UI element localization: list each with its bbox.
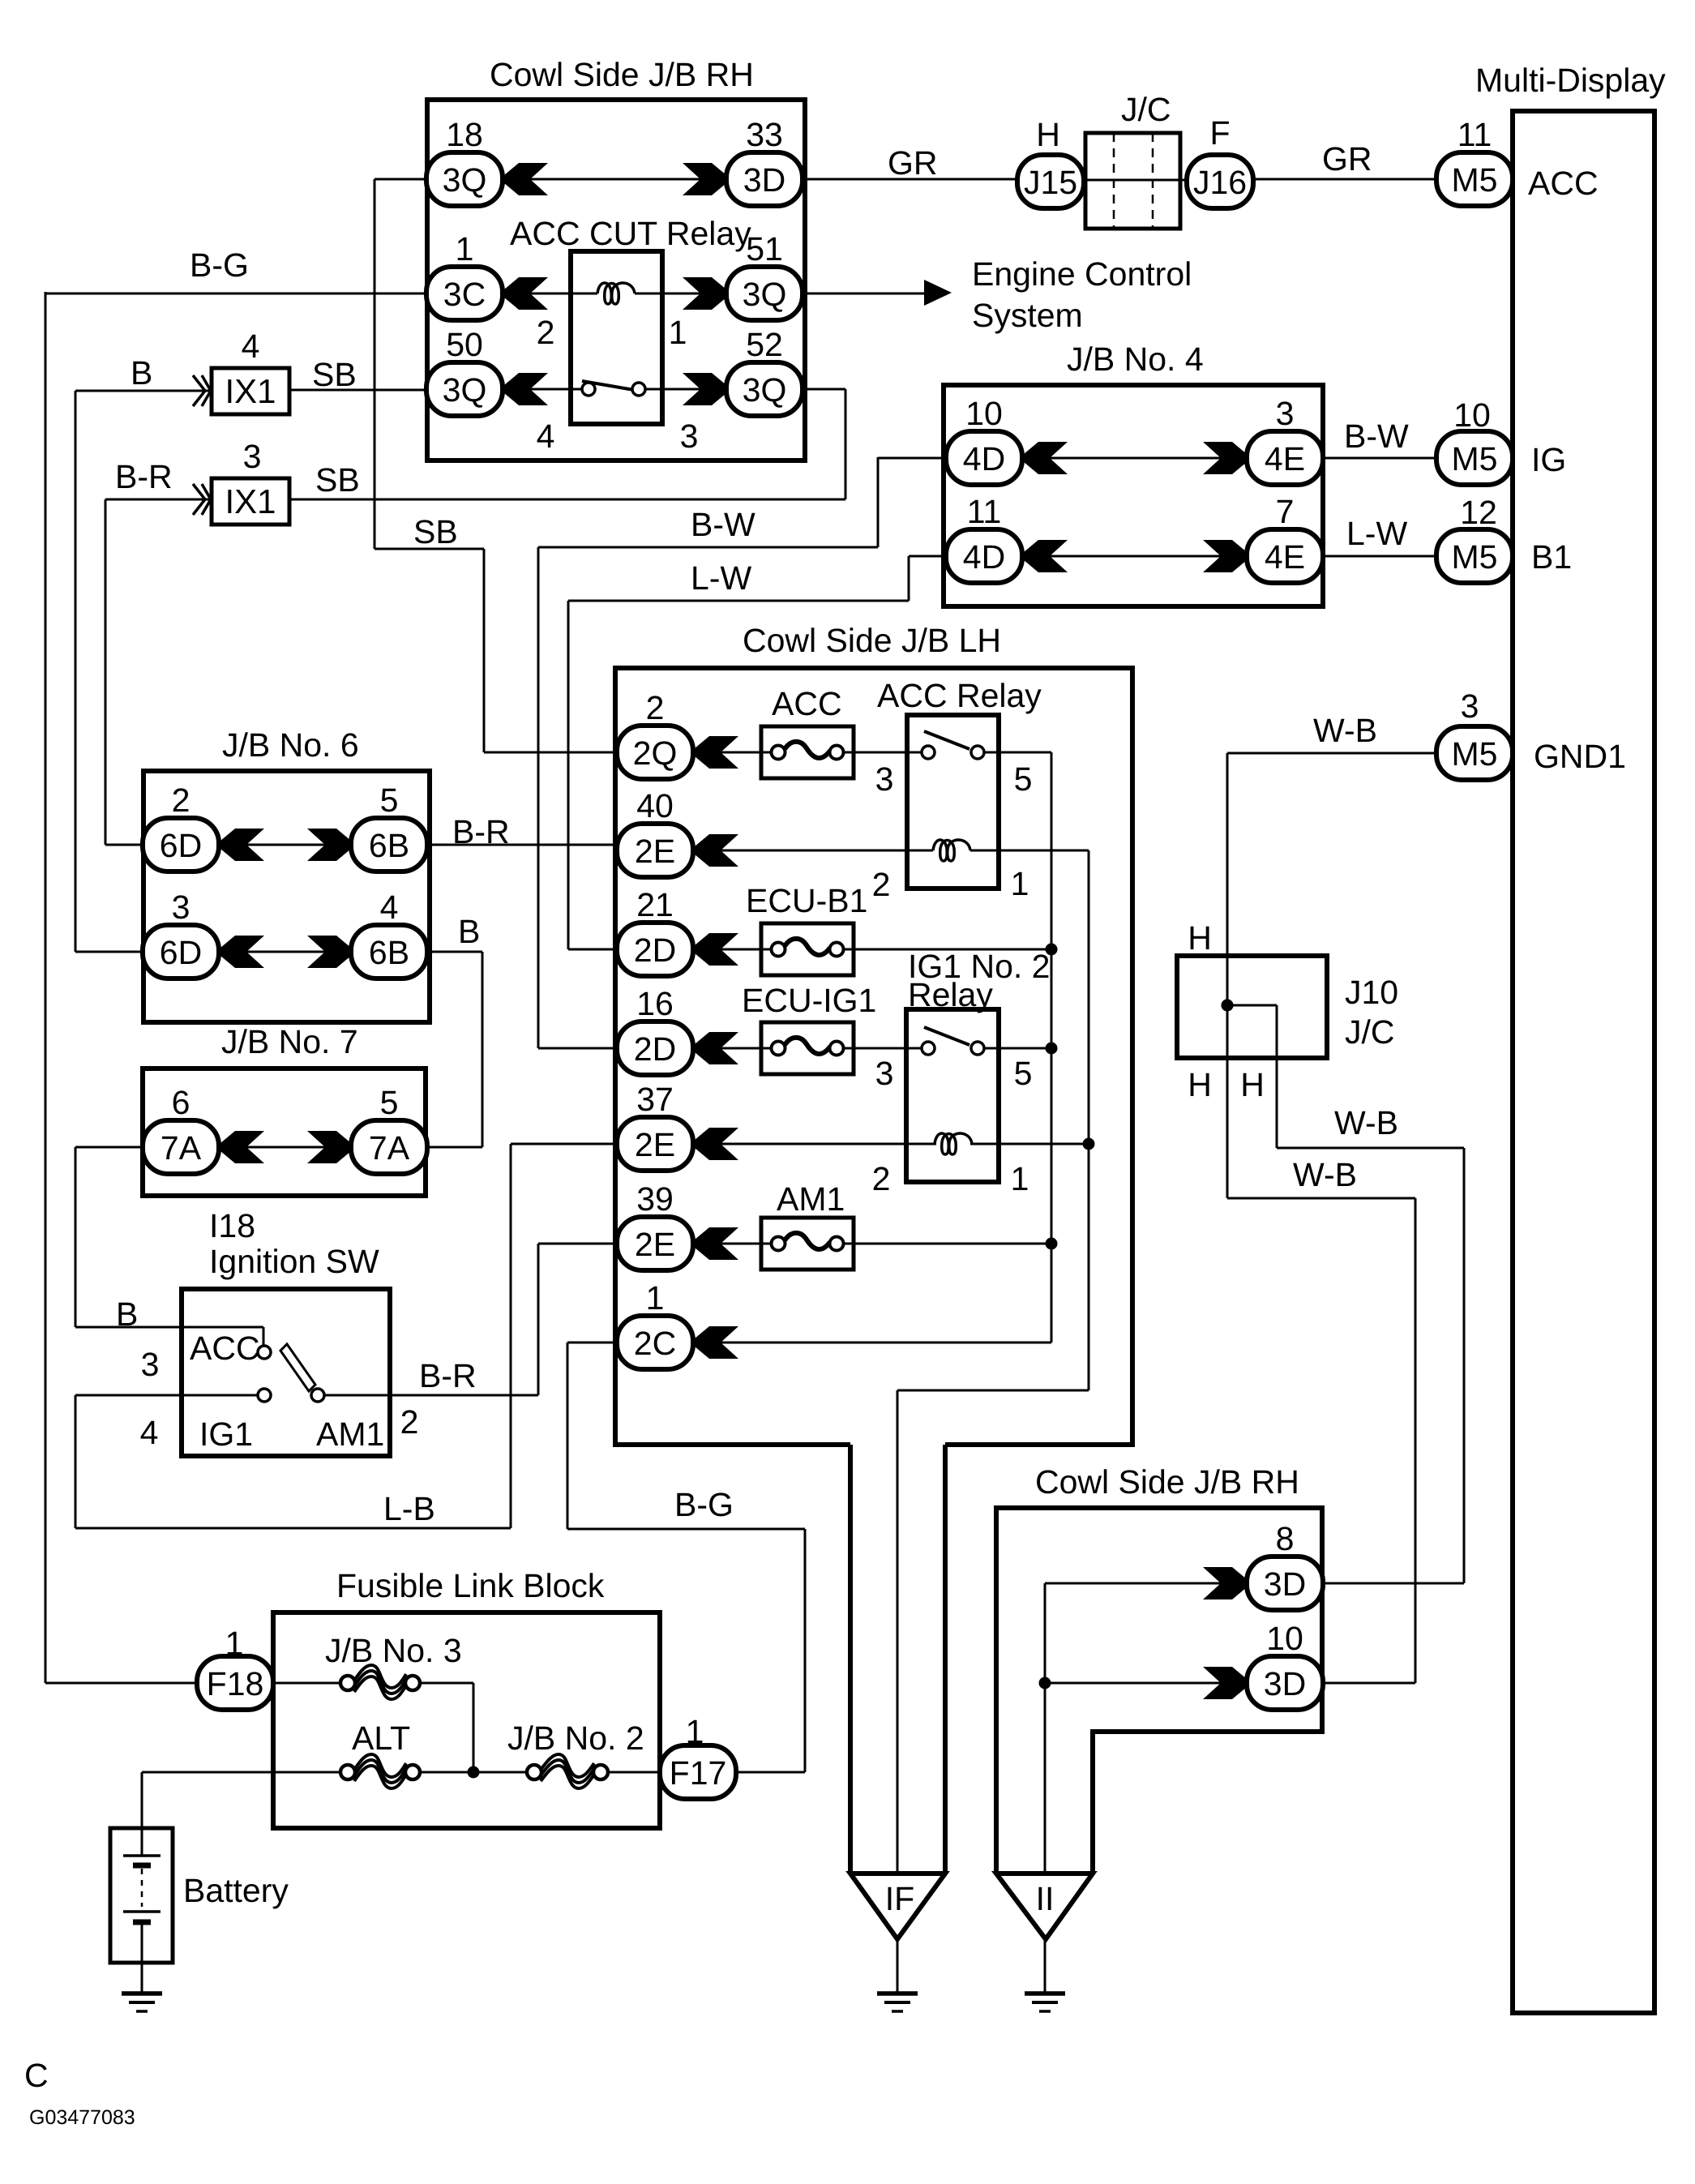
svg-text:H: H [1188, 919, 1212, 957]
svg-text:B-R: B-R [419, 1357, 477, 1394]
junction dot x1297 IG1 relay 5 [1046, 1043, 1058, 1055]
svg-text:ECU-IG1: ECU-IG1 [742, 982, 876, 1019]
wire 3D(10) left [1045, 1682, 1247, 1685]
arrow into 2E(40) [695, 834, 738, 867]
arrow into 4E(3) [1203, 442, 1247, 474]
svg-text:3: 3 [1461, 687, 1479, 725]
svg-text:1: 1 [225, 1625, 244, 1662]
svg-text:3Q: 3Q [743, 276, 787, 313]
svg-text:2: 2 [537, 314, 555, 351]
svg-text:Multi-Display: Multi-Display [1475, 62, 1666, 99]
fuse ECU-IG1 [761, 1022, 854, 1074]
wire stub to ACC contact [263, 1327, 265, 1347]
svg-text:J/C: J/C [1121, 91, 1171, 128]
arrow into 2Q(2) [695, 736, 738, 769]
svg-text:Battery: Battery [183, 1872, 289, 1909]
wire F18 to J/B No.3 link [275, 1682, 340, 1685]
svg-text:2: 2 [400, 1403, 419, 1441]
svg-text:4D: 4D [963, 538, 1005, 576]
svg-text:J/B No. 3: J/B No. 3 [325, 1632, 462, 1669]
arrow into 3D(8) [1203, 1567, 1247, 1599]
arrow into 3C(1) [504, 277, 548, 310]
wire B-W into 2D(16) [538, 1047, 618, 1050]
svg-text:3: 3 [875, 760, 894, 798]
connector oval 6B pin 4 [351, 925, 427, 979]
svg-text:1: 1 [456, 230, 474, 268]
svg-text:39: 39 [636, 1180, 674, 1218]
wire L-W vertical x701 [567, 601, 570, 949]
fuse AM1 [761, 1218, 854, 1270]
wire 2E(37) left [511, 1143, 618, 1146]
block Fusible Link Block [273, 1612, 660, 1828]
svg-text:J10: J10 [1345, 974, 1398, 1011]
relay ACC Relay box [907, 715, 999, 889]
connector funnel IF [850, 1445, 945, 1939]
fuse ECU-B1 [761, 923, 854, 975]
wire B-G vertical x993 [804, 1529, 807, 1772]
block Cowl Side J/B LH [615, 668, 1132, 1445]
wire vertical x1297 ACC relay 5 to 2C [1051, 752, 1053, 1343]
svg-text:H: H [1188, 1066, 1212, 1103]
wire battery bottom lead [141, 1963, 143, 1993]
wire B-G vertical x56 [45, 292, 47, 1683]
svg-text:Cowl Side J/B RH: Cowl Side J/B RH [490, 56, 754, 93]
svg-text:2: 2 [646, 689, 665, 726]
junction dot x1297 AM1 [1046, 1238, 1058, 1250]
svg-text:3Q: 3Q [443, 371, 487, 409]
svg-text:33: 33 [746, 116, 783, 153]
wire row 6D-6B top [220, 844, 351, 846]
wire 3D(8) right [1323, 1582, 1464, 1585]
contact ACC ignition [258, 1346, 271, 1359]
connector oval J16 [1187, 155, 1253, 208]
chevron IX1 lower [193, 484, 211, 515]
arrow into 4E(7) [1203, 540, 1247, 572]
wire B-R from AM1 pin 2 [324, 1394, 538, 1397]
arrow into 2E(37) [695, 1128, 738, 1160]
connector oval M5 pin 12 [1436, 529, 1513, 583]
svg-text:7A: 7A [369, 1129, 410, 1167]
wire B vertical x93 [75, 391, 77, 952]
wire J/B No.2 link to F17 [609, 1771, 661, 1774]
arrow into 3Q(52) [683, 373, 726, 405]
wire J/B No.3 link to corner [420, 1682, 473, 1685]
arrow into 6B(4) [307, 936, 351, 968]
svg-text:W-B: W-B [1293, 1156, 1357, 1193]
svg-text:IX1: IX1 [225, 482, 276, 520]
connector oval 4E pin 7 [1247, 529, 1323, 583]
svg-text:4: 4 [242, 328, 260, 365]
wire 4D(11) left exit [909, 555, 948, 558]
wire W-B horizontal y1416 [1277, 1147, 1464, 1150]
wire B-G vertical x700 [567, 1343, 569, 1529]
svg-text:M5: M5 [1452, 161, 1498, 199]
svg-text:F18: F18 [207, 1665, 264, 1702]
svg-text:2C: 2C [634, 1325, 676, 1362]
svg-text:I18: I18 [209, 1207, 255, 1244]
wire to Engine Control System [806, 293, 927, 295]
wire B-W vertical x1083 [877, 457, 880, 547]
svg-text:IX1: IX1 [225, 372, 276, 410]
arrow into 6B(5) [307, 829, 351, 861]
wire ALT to J/B No.2 link [420, 1771, 527, 1774]
wire SB vertical x462 [374, 179, 376, 549]
connector oval 3Q pin 52 [726, 362, 803, 416]
svg-text:B1: B1 [1531, 538, 1572, 576]
connector oval M5 pin 10 [1436, 431, 1513, 485]
wire B vertical x93 to ignition [75, 1147, 77, 1327]
wire L-W into 2D(21) [568, 949, 618, 951]
svg-text:6: 6 [172, 1084, 190, 1121]
arrow into 4D(10) [1024, 442, 1068, 474]
svg-text:GND1: GND1 [1534, 738, 1626, 775]
arrowhead Engine Control System [924, 280, 952, 306]
svg-text:J16: J16 [1193, 164, 1247, 201]
wire 2E(39) left [538, 1243, 618, 1245]
wire L-W horizontal y741 [568, 600, 909, 602]
fusible link J/B No. 3 [340, 1665, 420, 1699]
svg-text:ACC: ACC [772, 685, 842, 722]
arrow into 2E(39) [695, 1227, 738, 1260]
arrow into 3Q(18) [504, 163, 548, 195]
connector oval 3Q pin 18 [426, 152, 503, 206]
svg-text:ACC: ACC [190, 1330, 260, 1367]
wire 4D(10) left exit [878, 457, 948, 460]
wire W-B horizontal y1478 [1227, 1197, 1415, 1200]
svg-text:4: 4 [140, 1414, 159, 1451]
wire vertical x584 [473, 1683, 475, 1772]
wire B-R vertical x664 [537, 1244, 540, 1395]
svg-text:6B: 6B [369, 827, 409, 864]
wire L-W vertical x1121 [908, 556, 910, 601]
wire row 6D-6B bottom [220, 951, 351, 953]
svg-text:4D: 4D [963, 440, 1005, 477]
wire AM1 row [538, 1243, 1051, 1245]
svg-text:7A: 7A [161, 1129, 202, 1167]
junction dot x1297 ECU-B1 [1046, 944, 1058, 956]
wire W-B M5 GND1 [1227, 752, 1438, 755]
block Cowl Side J/B RH (top) [427, 100, 805, 460]
svg-text:Ignition SW: Ignition SW [209, 1243, 379, 1280]
svg-text:H: H [1240, 1066, 1265, 1103]
svg-text:Engine Control: Engine Control [972, 255, 1192, 293]
svg-text:21: 21 [636, 886, 674, 923]
svg-text:1: 1 [669, 314, 687, 351]
arrow into 7A(6) [220, 1131, 264, 1163]
wire 3D(8) left [1045, 1582, 1247, 1585]
svg-text:5: 5 [380, 1084, 399, 1121]
wire W-B vertical x1514 [1226, 753, 1229, 1198]
switch IG1 No. 2 Relay [922, 1027, 984, 1055]
svg-text:5: 5 [1014, 760, 1033, 798]
wire 2C left [567, 1342, 618, 1344]
connector oval 3C pin 1 [426, 267, 503, 320]
junction dot x584 [468, 1766, 480, 1779]
block J/B No. 7 [143, 1068, 426, 1196]
connector oval 2C pin 1 [617, 1316, 693, 1369]
wire SB horizontal y677 [375, 548, 484, 550]
wire row 3Q50-3Q52 switch row [504, 388, 582, 391]
wire 7A(6) left exit [75, 1146, 144, 1149]
wire through J/C J15-J16 [1085, 179, 1185, 182]
wire L-W 4E(7) to M5 B1 [1323, 555, 1438, 558]
svg-text:GR: GR [888, 144, 938, 182]
coil ACC CUT Relay [597, 283, 635, 304]
svg-text:18: 18 [446, 116, 483, 153]
svg-text:ACC Relay: ACC Relay [877, 677, 1042, 714]
svg-text:IF: IF [885, 1880, 914, 1917]
svg-text:System: System [972, 297, 1083, 334]
connector oval 4E pin 3 [1247, 431, 1323, 485]
svg-text:1: 1 [1011, 865, 1029, 902]
wire vertical x1343 ACC relay coil to IF [1088, 850, 1090, 1390]
svg-text:3: 3 [141, 1346, 160, 1383]
svg-text:2: 2 [172, 782, 190, 819]
svg-text:W-B: W-B [1313, 712, 1377, 749]
connector oval 4D pin 10 [946, 431, 1022, 485]
wire B-W horizontal y675 [538, 546, 878, 549]
wire B to IX1 [75, 390, 212, 392]
junction dot x1343 IG1 coil [1083, 1138, 1095, 1150]
wire B into 7A(5) [427, 1146, 482, 1149]
svg-text:J/B No. 6: J/B No. 6 [222, 726, 359, 764]
connector oval 6D pin 3 [143, 925, 219, 979]
svg-text:B-W: B-W [691, 506, 755, 543]
switch ACC Relay [922, 731, 984, 759]
relay ACC CUT Relay box [571, 251, 662, 424]
wire B 6B(4) exit [430, 951, 482, 953]
wire B into ignition SW [75, 1326, 263, 1329]
wire IG1 relay coil row to 2E(37) [511, 1143, 936, 1146]
svg-text:2: 2 [872, 866, 891, 903]
connector oval 3D pin 33 [726, 152, 803, 206]
ground battery [122, 1993, 162, 2011]
svg-text:5: 5 [1014, 1055, 1033, 1092]
svg-text:Cowl Side J/B RH: Cowl Side J/B RH [1035, 1463, 1299, 1501]
svg-text:12: 12 [1460, 494, 1497, 531]
svg-text:3: 3 [243, 438, 262, 475]
svg-text:50: 50 [446, 326, 483, 363]
svg-text:GR: GR [1322, 140, 1372, 178]
junction dot inside J10 redraw [1222, 1000, 1234, 1012]
svg-text:H: H [1036, 116, 1060, 153]
wire battery top lead [141, 1772, 143, 1830]
wire B-R into 6D(2) [105, 844, 144, 846]
svg-text:Relay: Relay [908, 976, 993, 1013]
fuse ACC [761, 726, 854, 778]
wire SB IX1 to 3Q(50) [289, 389, 427, 392]
wire B-R vertical x130 [105, 499, 107, 845]
wire B-R 6B(5) to 2E(40) [430, 844, 618, 846]
arrow into 4D(11) [1024, 540, 1068, 572]
chevron IX1 upper [193, 375, 211, 406]
connector oval 3D pin 8 [1247, 1557, 1323, 1610]
connector oval 2E pin 40 [617, 824, 693, 877]
wire W-B vertical x1806 [1463, 1148, 1466, 1583]
arrow into 2C(1) [695, 1326, 738, 1359]
svg-text:SB: SB [315, 461, 360, 499]
svg-text:ECU-B1: ECU-B1 [746, 882, 867, 919]
connector oval 7A pin 6 [143, 1120, 219, 1174]
svg-text:G03477083: G03477083 [29, 2106, 135, 2129]
svg-text:II: II [1036, 1880, 1055, 1917]
wire F17 right [736, 1771, 805, 1774]
arrow into 3Q(51) [683, 277, 726, 310]
wire vertical x1289 3D(8) to II ground [1044, 1583, 1047, 1993]
connector oval 7A pin 5 [351, 1120, 427, 1174]
wire IG1 pin 4 left [75, 1394, 258, 1397]
connector oval 2Q pin 2 [617, 726, 693, 779]
wire ECU-B1 row [695, 949, 1051, 951]
lever ignition switch [280, 1344, 315, 1391]
svg-text:L-W: L-W [1346, 515, 1407, 552]
wire SB from 3Q(18) left [375, 178, 427, 181]
wire 2Q row to ACC fuse and relay [695, 752, 922, 754]
arrow into 3D(10) [1203, 1667, 1247, 1699]
wire W-B vertical x1575 [1276, 1005, 1278, 1148]
junction block J/C (top) [1085, 133, 1180, 229]
svg-text:2: 2 [872, 1160, 891, 1197]
wire row 3Q18-3D33 inside block [504, 178, 726, 181]
wire B-W vertical x664 [537, 547, 540, 1048]
connector oval 2D pin 16 [617, 1021, 693, 1075]
connector oval 3Q pin 50 [426, 362, 503, 416]
wire B vertical x595 [482, 952, 484, 1147]
junction dot J10 [1222, 1000, 1234, 1012]
connector oval 2E pin 39 [617, 1217, 693, 1270]
wire B-G into F18 [45, 1682, 199, 1685]
arrow into 6D(2) [220, 829, 264, 861]
connector IX1 lower [212, 478, 289, 525]
svg-text:3: 3 [172, 889, 190, 926]
svg-text:IG: IG [1531, 441, 1566, 478]
svg-text:B-G: B-G [190, 246, 249, 284]
svg-text:ACC: ACC [1528, 165, 1599, 202]
svg-text:B-R: B-R [115, 458, 173, 495]
connector IX1 upper [212, 368, 289, 414]
svg-text:3D: 3D [1264, 1565, 1306, 1603]
svg-text:L-B: L-B [383, 1490, 435, 1527]
coil IG1 No. 2 Relay [935, 1133, 972, 1154]
wire L-B horizontal y1885 [75, 1527, 511, 1530]
svg-text:37: 37 [636, 1081, 674, 1118]
ground II [1025, 1993, 1065, 2011]
battery [110, 1828, 173, 1963]
svg-text:1: 1 [1011, 1160, 1029, 1197]
coil ACC Relay [933, 840, 970, 861]
svg-text:J/C: J/C [1345, 1013, 1395, 1051]
svg-text:B: B [116, 1295, 138, 1333]
svg-text:3Q: 3Q [443, 161, 487, 199]
svg-text:2E: 2E [635, 1126, 675, 1163]
svg-text:2E: 2E [635, 833, 675, 870]
svg-text:1: 1 [646, 1279, 665, 1317]
svg-text:ALT: ALT [352, 1719, 410, 1757]
svg-text:10: 10 [965, 395, 1003, 432]
svg-text:10: 10 [1266, 1620, 1303, 1657]
wire GR J16 to M5 ACC [1255, 178, 1438, 181]
relay IG1 No. 2 Relay box [906, 1009, 999, 1182]
wire 2C row [567, 1342, 1051, 1344]
svg-text:W-B: W-B [1334, 1104, 1398, 1141]
svg-text:F: F [1209, 114, 1230, 152]
svg-text:Fusible Link Block: Fusible Link Block [336, 1567, 605, 1604]
connector oval 3D pin 10 [1247, 1656, 1323, 1710]
svg-text:4E: 4E [1265, 440, 1305, 477]
wire L-B vertical x93 [75, 1395, 77, 1528]
connector oval 3Q pin 51 [726, 267, 803, 320]
connector oval J15 [1017, 155, 1084, 208]
svg-text:M5: M5 [1452, 538, 1498, 576]
svg-text:B-R: B-R [452, 813, 510, 850]
wire IF funnel vertical x1107 [897, 1390, 899, 1993]
svg-text:J/B No. 2: J/B No. 2 [507, 1719, 644, 1757]
svg-text:6B: 6B [369, 934, 409, 971]
svg-text:4: 4 [380, 889, 399, 926]
wire W-B vertical x1746 [1415, 1198, 1417, 1683]
svg-text:3: 3 [875, 1055, 894, 1092]
contact AM1 ignition [311, 1389, 324, 1402]
svg-text:4E: 4E [1265, 538, 1305, 576]
wire J10 dot to x1575 [1227, 1004, 1277, 1007]
arrow into 3Q(50) [504, 373, 548, 405]
connector oval 2D pin 21 [617, 923, 693, 976]
wire 3D(10) right [1323, 1682, 1415, 1685]
wire row 3C-3Q51 relay coil row [504, 293, 597, 295]
switch ACC CUT Relay [582, 381, 645, 396]
block J/B No. 4 [944, 385, 1323, 606]
svg-text:52: 52 [746, 326, 783, 363]
ground IF [877, 1993, 918, 2011]
wire GR 3D33 to J15 [803, 178, 1018, 181]
svg-text:1: 1 [686, 1713, 704, 1750]
svg-text:B: B [131, 354, 152, 392]
connector oval M5 pin 3 [1436, 726, 1513, 780]
svg-text:2Q: 2Q [633, 734, 678, 772]
wire SB vertical x1043 [845, 389, 847, 499]
connector oval M5 pin 11 [1436, 152, 1513, 206]
connector oval 6B pin 5 [351, 818, 427, 871]
block Ignition SW [182, 1289, 390, 1456]
block Cowl Side J/B RH (lower) [996, 1508, 1322, 1874]
svg-text:5: 5 [380, 782, 399, 819]
svg-text:4: 4 [537, 418, 555, 455]
svg-text:51: 51 [746, 230, 783, 268]
svg-text:8: 8 [1276, 1520, 1295, 1557]
wire 3Q(52) right exit [803, 388, 845, 391]
svg-text:B: B [458, 913, 480, 950]
svg-text:3Q: 3Q [743, 371, 787, 409]
svg-text:F17: F17 [670, 1754, 727, 1792]
wire L-B vertical x630 [510, 1144, 512, 1528]
wire SB into 2Q [484, 752, 618, 754]
wire row 4D-4E top [1024, 457, 1247, 460]
svg-text:3C: 3C [443, 276, 486, 313]
contact IG1 ignition [258, 1389, 271, 1402]
svg-text:11: 11 [1457, 116, 1492, 153]
svg-text:2D: 2D [634, 1030, 676, 1068]
wire row 7A-7A [220, 1146, 351, 1149]
wire B into 6D(3) [75, 951, 144, 953]
junction dot x1289 3D(10) [1039, 1677, 1051, 1689]
arrow into 2D(16) [695, 1032, 738, 1064]
wire ACC relay coil row to 2E(40) [695, 850, 933, 852]
svg-text:IG1: IG1 [199, 1415, 253, 1453]
arrow into 6D(3) [220, 936, 264, 968]
wire B-G horizontal y1886 [567, 1528, 805, 1531]
block J/B No. 6 [143, 771, 430, 1022]
connector oval 4D pin 11 [946, 529, 1022, 583]
